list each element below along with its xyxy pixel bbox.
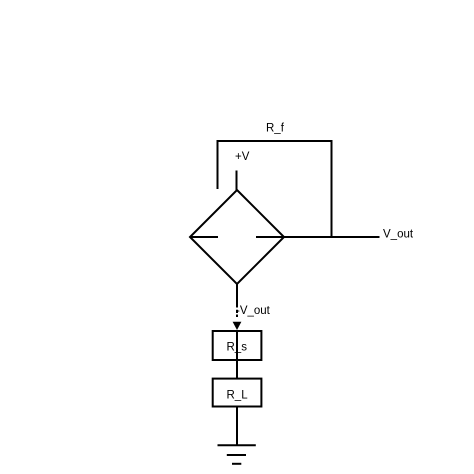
wire: R_s to R_L bbox=[236, 360, 238, 379]
svg-text:R_f: R_f bbox=[266, 123, 285, 135]
wire: output bbox=[284, 236, 380, 238]
svg-text:-V_out: -V_out bbox=[236, 305, 271, 317]
dashed annotation arrow bbox=[233, 310, 242, 330]
wire: +V lead to source top bbox=[236, 171, 238, 191]
wire: feedback top segment bbox=[218, 140, 332, 142]
wire: through R_s bbox=[236, 331, 238, 360]
resistor R_s bbox=[213, 331, 262, 360]
terminal bar left bbox=[190, 236, 218, 238]
svg-text:R_s: R_s bbox=[227, 342, 248, 354]
wire: R_L to ground bbox=[236, 407, 238, 446]
svg-text:R_L: R_L bbox=[227, 389, 249, 401]
wire: feedback left segment bbox=[217, 140, 219, 189]
dependent source U1 (diamond) bbox=[190, 190, 284, 284]
wire: feedback right segment bbox=[331, 140, 333, 237]
svg-text:V_out: V_out bbox=[383, 229, 414, 241]
svg-text:+V: +V bbox=[235, 151, 250, 163]
resistor R_L bbox=[213, 379, 262, 407]
wire: source bottom lead bbox=[236, 284, 238, 308]
ground bbox=[218, 445, 256, 464]
terminal bar right bbox=[256, 236, 284, 238]
